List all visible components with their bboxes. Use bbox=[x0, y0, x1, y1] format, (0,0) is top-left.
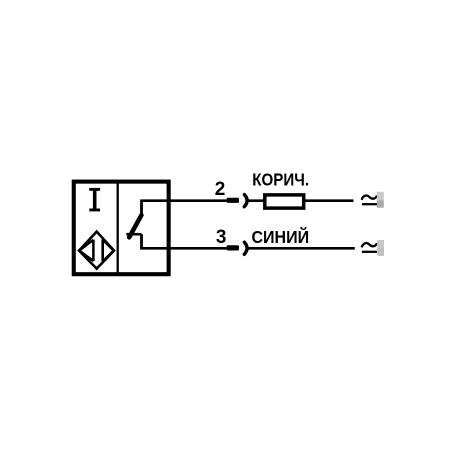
supply terminal block (bottom) bbox=[377, 240, 384, 256]
connector X1 pin (top) bbox=[227, 198, 239, 203]
label KORICH (brown wire) bbox=[252, 169, 309, 190]
AC/DC supply symbol (bottom) bbox=[362, 243, 378, 252]
connector X1 socket (top) bbox=[244, 195, 247, 207]
label SINIY (blue wire) bbox=[252, 227, 310, 247]
sensor body outline bbox=[74, 182, 169, 275]
wire pin3 from body bbox=[140, 247, 227, 250]
supply terminal block (top) bbox=[377, 192, 384, 208]
svg-text:КОРИЧ.: КОРИЧ. bbox=[252, 169, 309, 190]
fixed contact tick bbox=[126, 233, 141, 236]
svg-text:3: 3 bbox=[216, 227, 227, 248]
top stub bbox=[140, 201, 143, 216]
bottom stub bbox=[140, 234, 143, 248]
wire socket to resistor bbox=[247, 199, 265, 202]
wire resistor to supply bbox=[305, 199, 354, 202]
proximity sensor diamond symbol bbox=[79, 232, 114, 269]
AC/DC supply symbol (top) bbox=[362, 196, 378, 205]
connector X2 socket (bottom) bbox=[244, 242, 247, 254]
wire socket to supply (bottom) bbox=[247, 247, 355, 250]
svg-text:2: 2 bbox=[215, 179, 226, 200]
resistor R (load) bbox=[265, 195, 304, 208]
wire pin2 from body bbox=[140, 199, 227, 202]
inductive symbol I bbox=[89, 188, 100, 212]
svg-text:СИНИЙ: СИНИЙ bbox=[252, 227, 310, 247]
switch contact bbox=[126, 201, 141, 249]
connector X2 pin (bottom) bbox=[227, 245, 239, 250]
sensor body divider bbox=[117, 182, 119, 275]
movable arm bbox=[129, 215, 141, 237]
